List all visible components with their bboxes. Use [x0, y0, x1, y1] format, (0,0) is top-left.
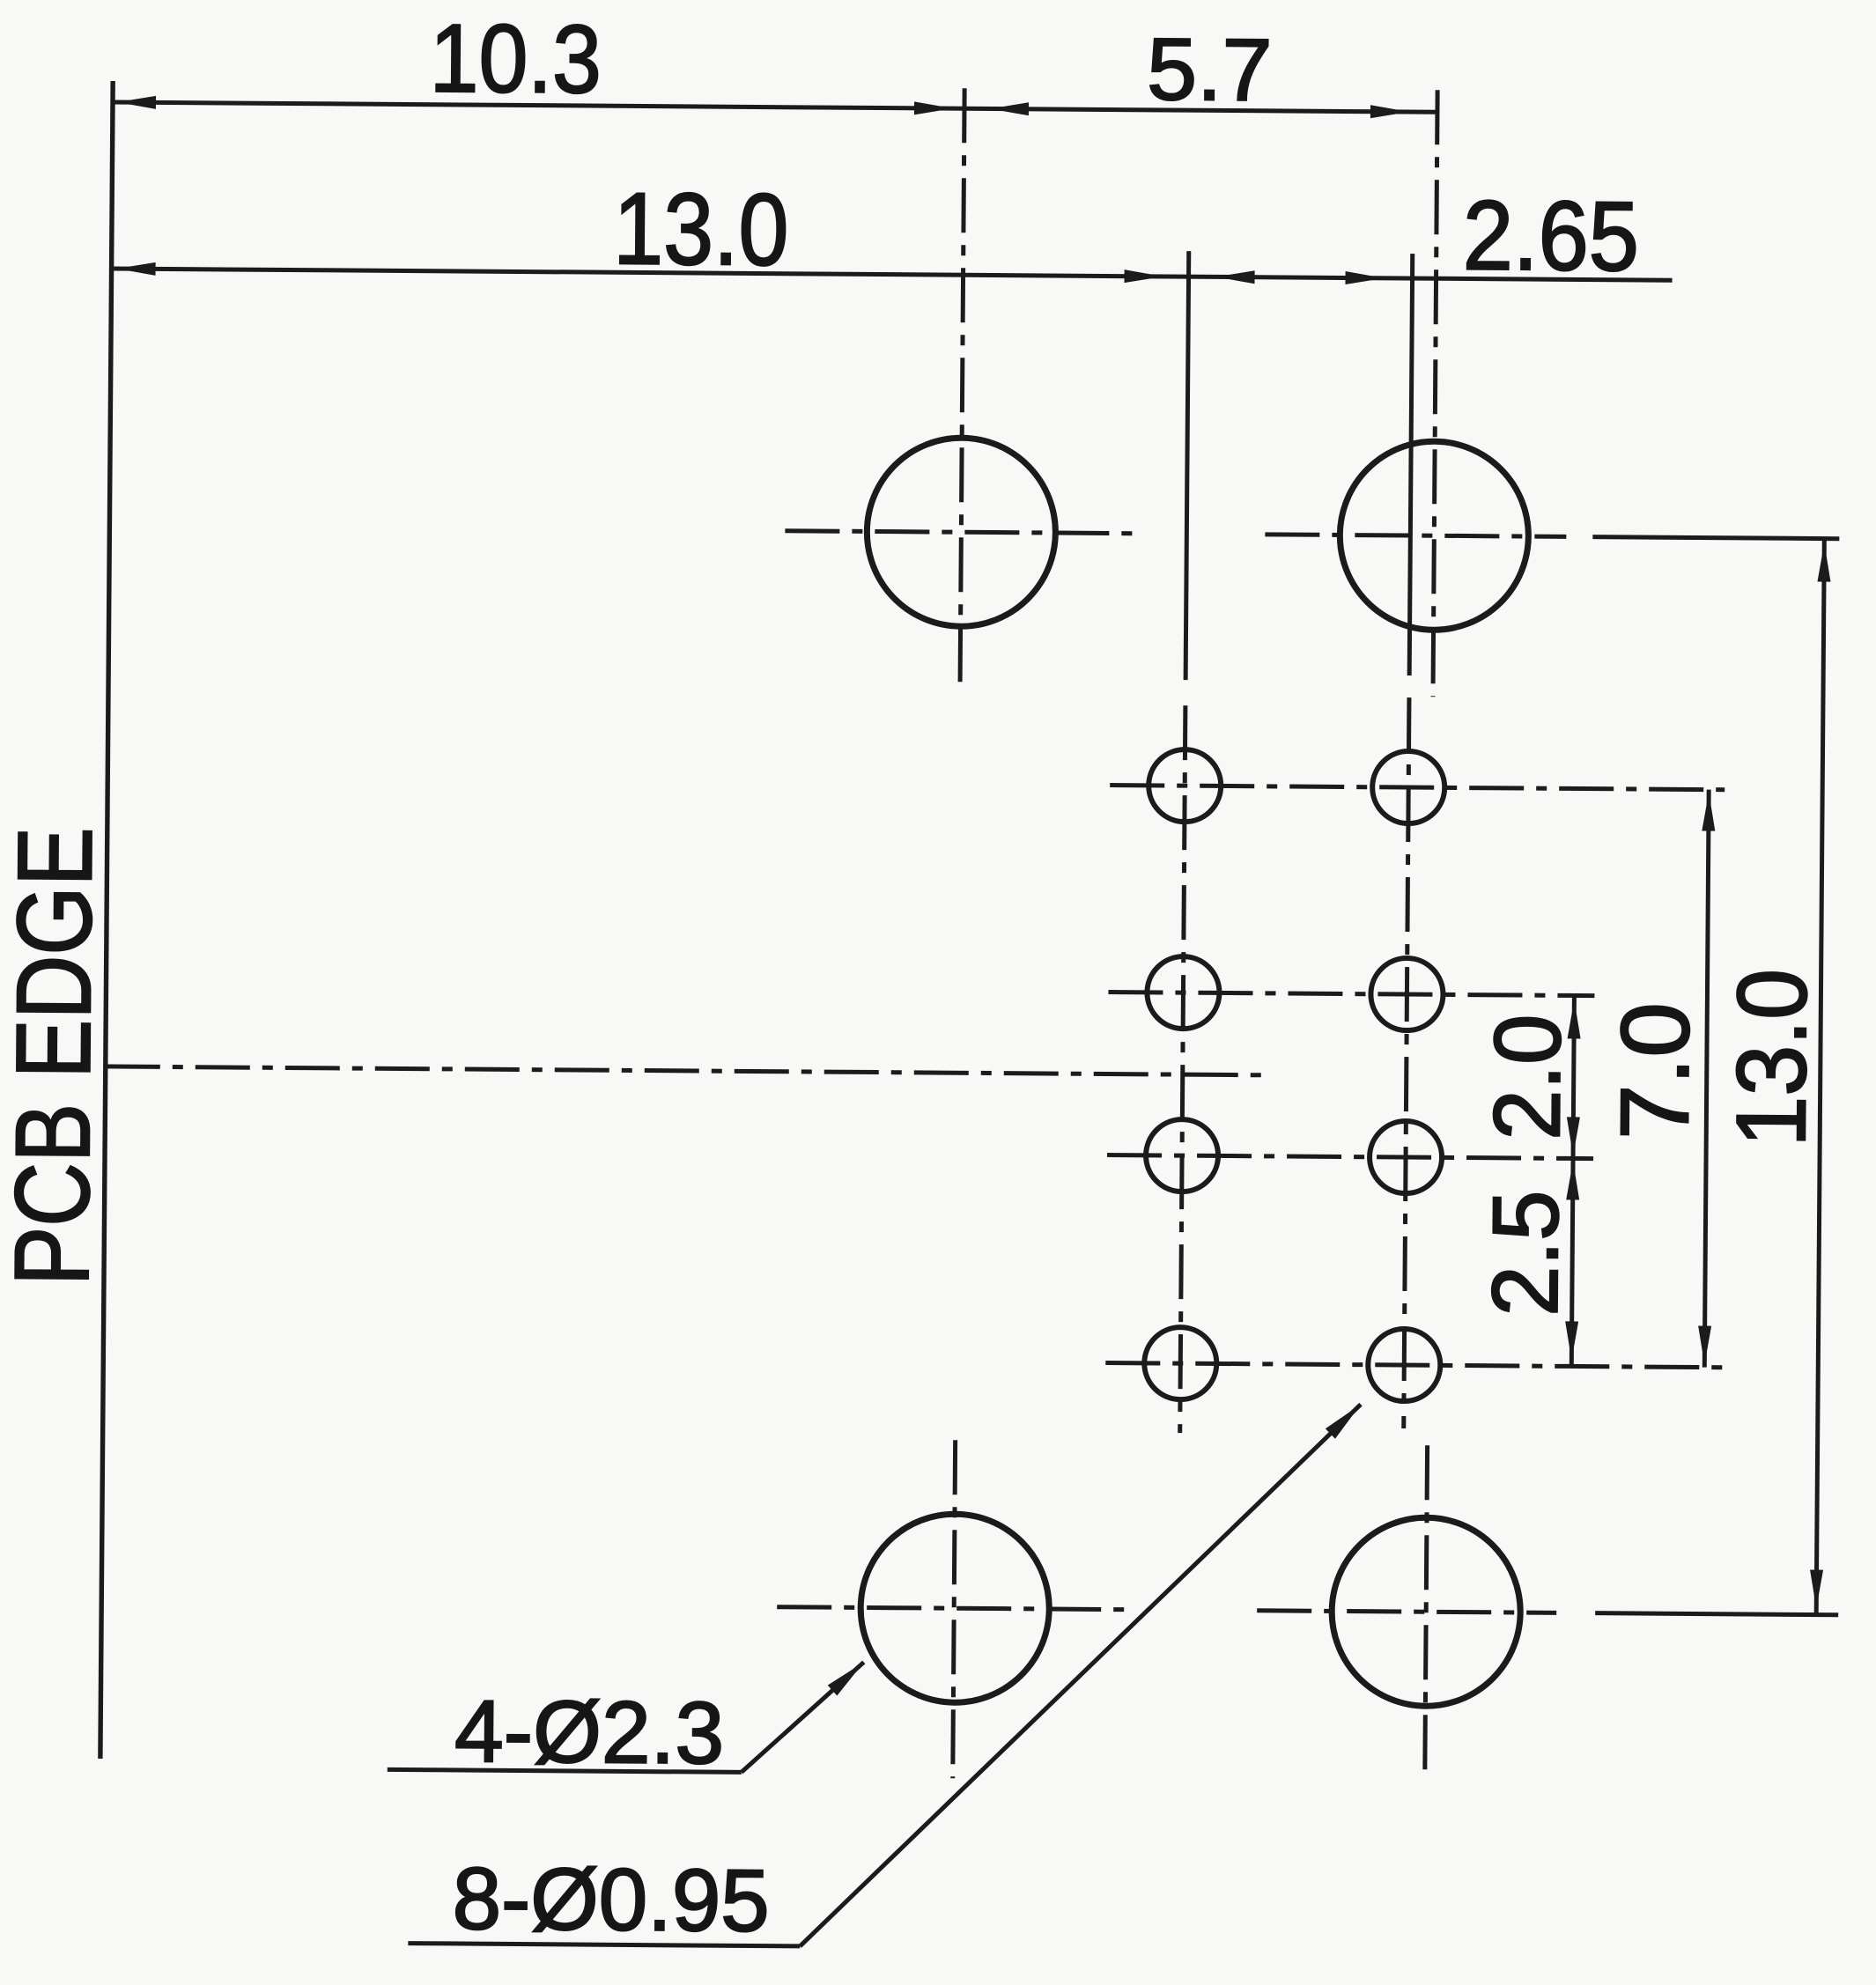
svg-text:2.65: 2.65: [1462, 181, 1639, 291]
svg-text:5.7: 5.7: [1147, 20, 1273, 120]
svg-text:2.0: 2.0: [1473, 1014, 1580, 1140]
svg-text:4-Ø2.3: 4-Ø2.3: [454, 1682, 725, 1782]
svg-text:PCB EDGE: PCB EDGE: [0, 827, 114, 1287]
svg-text:7.0: 7.0: [1600, 1002, 1710, 1140]
svg-text:2.5: 2.5: [1473, 1190, 1578, 1317]
svg-text:13.0: 13.0: [613, 171, 789, 286]
svg-text:8-Ø0.95: 8-Ø0.95: [452, 1849, 770, 1951]
svg-text:13.0: 13.0: [1716, 969, 1828, 1147]
svg-text:10.3: 10.3: [429, 4, 602, 114]
